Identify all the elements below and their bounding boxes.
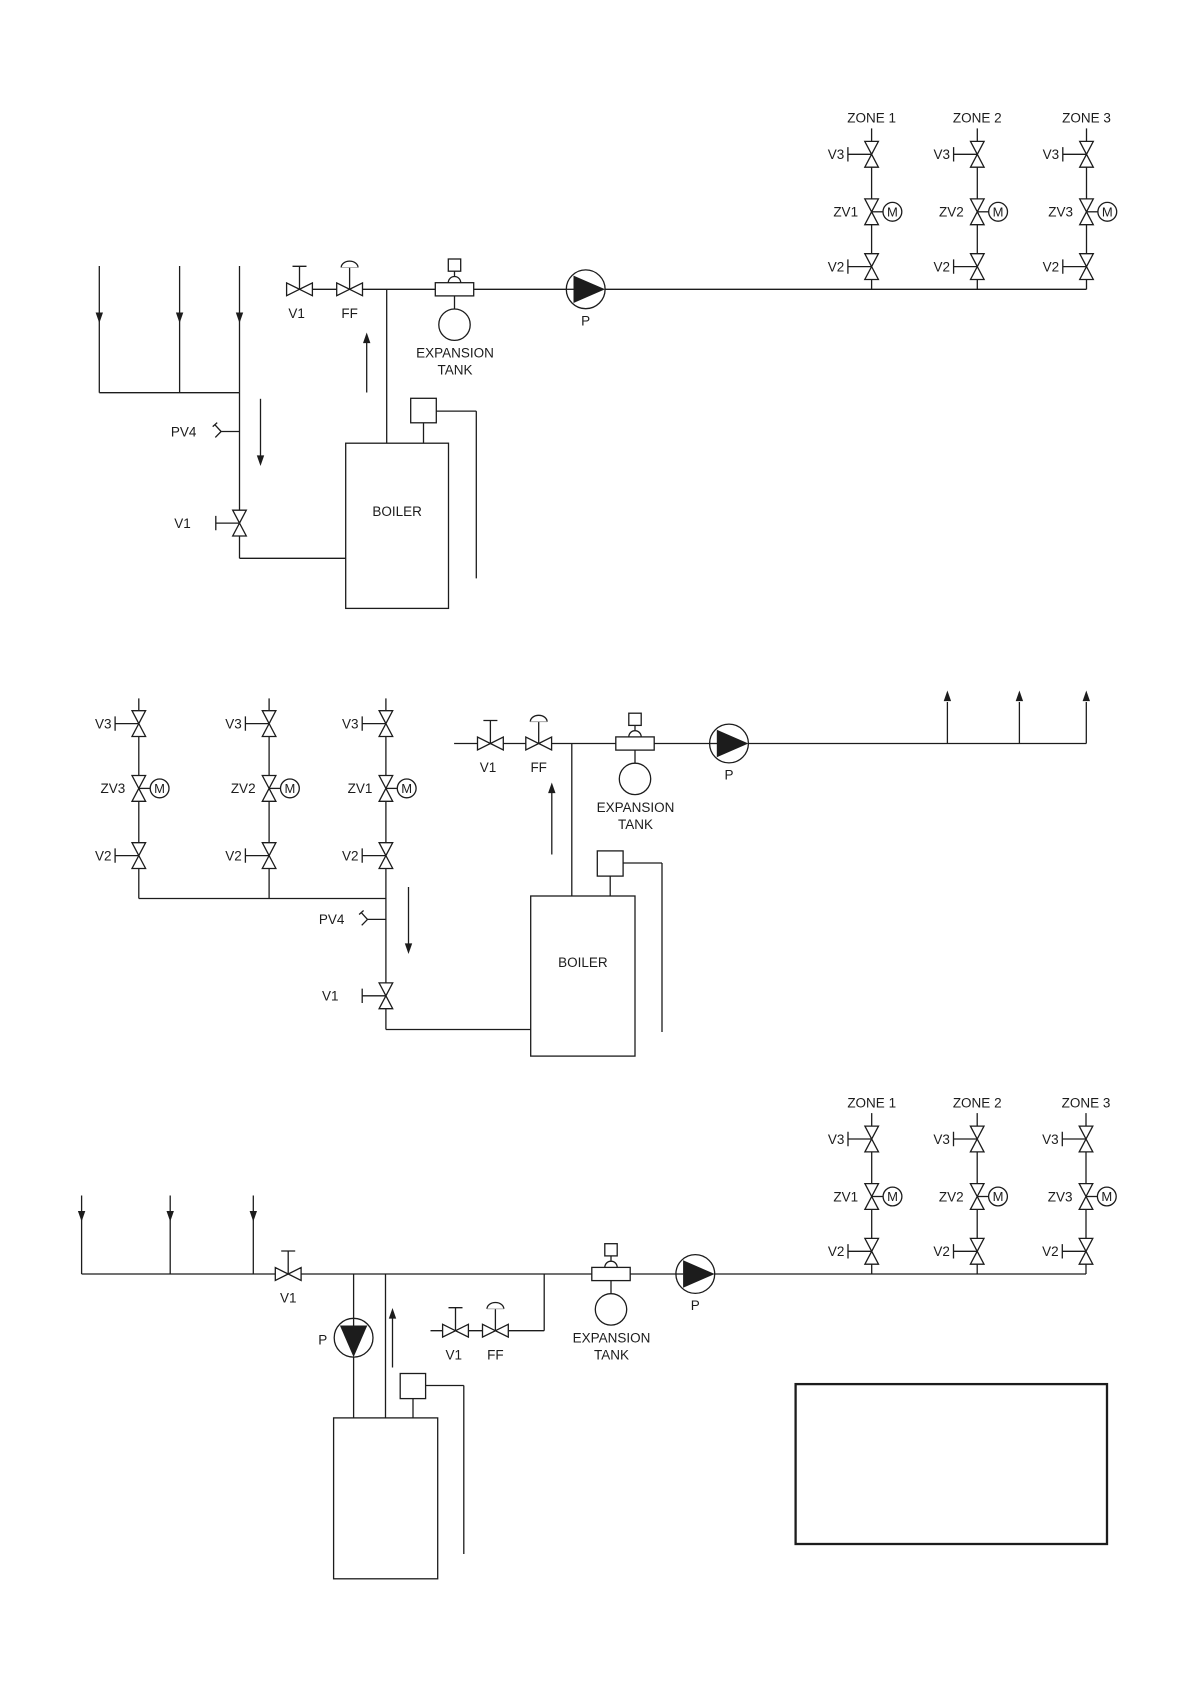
svg-text:TANK: TANK [618,817,653,832]
svg-text:V1: V1 [288,306,305,321]
svg-text:ZONE 1: ZONE 1 [847,1095,896,1110]
svg-text:TANK: TANK [594,1347,629,1362]
svg-text:V3: V3 [933,1132,950,1147]
svg-text:M: M [154,781,165,796]
svg-text:V2: V2 [828,1244,845,1259]
svg-text:V2: V2 [342,848,359,863]
svg-text:M: M [1102,204,1113,219]
svg-text:FF: FF [487,1347,504,1362]
svg-text:ZV2: ZV2 [939,1189,964,1204]
svg-text:V3: V3 [828,1132,845,1147]
svg-text:V1: V1 [174,516,191,531]
svg-text:P: P [724,767,733,782]
svg-text:P: P [581,313,590,328]
svg-text:V2: V2 [225,848,242,863]
svg-text:V1: V1 [480,760,497,775]
svg-text:ZV1: ZV1 [833,205,858,220]
svg-text:ZONE 2: ZONE 2 [953,1095,1002,1110]
svg-text:ZV2: ZV2 [939,205,964,220]
svg-text:P: P [318,1333,327,1348]
svg-text:V3: V3 [1043,147,1060,162]
svg-text:FF: FF [341,306,358,321]
svg-text:ZV1: ZV1 [348,781,373,796]
svg-text:V3: V3 [342,716,359,731]
svg-text:P: P [691,1298,700,1313]
svg-text:ZONE 3: ZONE 3 [1062,111,1111,126]
svg-text:EXPANSION: EXPANSION [573,1330,651,1345]
svg-text:V2: V2 [1042,1244,1059,1259]
svg-text:V3: V3 [828,147,845,162]
svg-text:V1: V1 [280,1291,297,1306]
svg-text:M: M [887,1189,898,1204]
svg-text:FF: FF [530,760,547,775]
svg-text:ZONE 2: ZONE 2 [953,111,1002,126]
svg-text:V2: V2 [933,259,950,274]
svg-text:ZV2: ZV2 [231,781,256,796]
svg-text:M: M [993,1189,1004,1204]
svg-text:PV4: PV4 [171,424,197,439]
svg-text:ZV1: ZV1 [833,1189,858,1204]
svg-text:BOILER: BOILER [558,955,608,970]
svg-text:V1: V1 [322,989,339,1004]
svg-text:V3: V3 [933,147,950,162]
svg-text:V2: V2 [95,848,112,863]
svg-text:ZV3: ZV3 [101,781,126,796]
svg-text:ZV3: ZV3 [1048,1189,1073,1204]
svg-text:M: M [993,204,1004,219]
svg-text:V3: V3 [225,716,242,731]
svg-text:ZV3: ZV3 [1048,205,1073,220]
svg-text:M: M [887,204,898,219]
svg-text:V2: V2 [1043,259,1060,274]
svg-text:EXPANSION: EXPANSION [416,346,494,361]
svg-text:V2: V2 [933,1244,950,1259]
svg-text:V1: V1 [446,1347,463,1362]
svg-text:V3: V3 [1042,1132,1059,1147]
svg-text:EXPANSION: EXPANSION [597,800,675,815]
svg-text:V3: V3 [95,716,112,731]
svg-text:V2: V2 [828,259,845,274]
svg-text:ZONE 3: ZONE 3 [1062,1095,1111,1110]
svg-text:M: M [284,781,295,796]
svg-text:M: M [1101,1189,1112,1204]
svg-text:M: M [401,781,412,796]
svg-text:ZONE 1: ZONE 1 [847,111,896,126]
svg-text:BOILER: BOILER [372,504,422,519]
svg-text:TANK: TANK [437,363,472,378]
svg-text:PV4: PV4 [319,912,345,927]
